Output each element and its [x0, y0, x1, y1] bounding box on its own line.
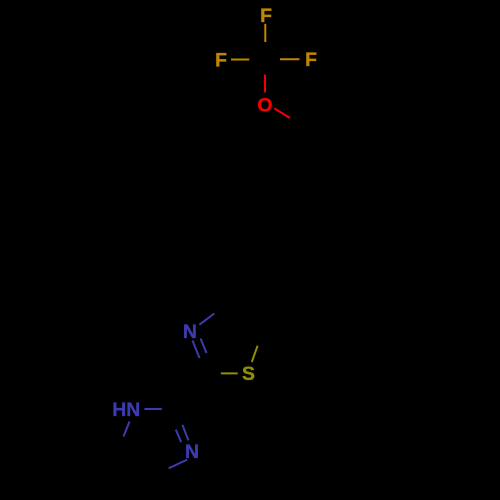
bond N3'-C4' (imidazole), N half (down-left) [169, 460, 188, 469]
bond O-C(aryl), O half (down-right diagonal) [274, 108, 290, 118]
bond N3-C4 (thiazole), N half [199, 314, 214, 325]
bond N3=C2 (thiazole) inner line, N half [201, 339, 207, 354]
svg-text:N: N [183, 321, 197, 343]
bond N3=C2 (thiazole) main line, N half [193, 341, 200, 359]
bond C2'=N3' (imidazole) main line, N half [182, 425, 188, 441]
svg-text:F: F [215, 49, 227, 71]
bond S1-C2 (thiazole), S half (horizontal left) [221, 372, 238, 374]
bond C7-F1, F half [264, 24, 266, 42]
bond O-C7, O half (vertical up) [264, 75, 266, 93]
bond C7-F3, F half [280, 58, 300, 60]
svg-text:O: O [257, 95, 272, 117]
bond S1-C5 (thiazole), S half (up-right diagonal) [252, 346, 258, 362]
bond N1-C2' (imidazole), N half (horizontal right) [144, 408, 162, 410]
svg-text:HN: HN [112, 399, 140, 421]
svg-text:F: F [305, 49, 317, 71]
bond C2'=N3' (imidazole) inner line, N half [176, 430, 181, 443]
bond C7-F2, F half [231, 59, 249, 61]
bond N1-C5' (imidazole), N half (down-left) [124, 422, 130, 437]
svg-text:S: S [242, 363, 255, 385]
